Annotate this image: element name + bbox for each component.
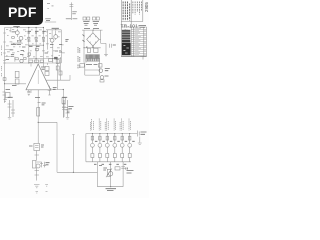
svg-text:2905: 2905 bbox=[144, 2, 149, 12]
